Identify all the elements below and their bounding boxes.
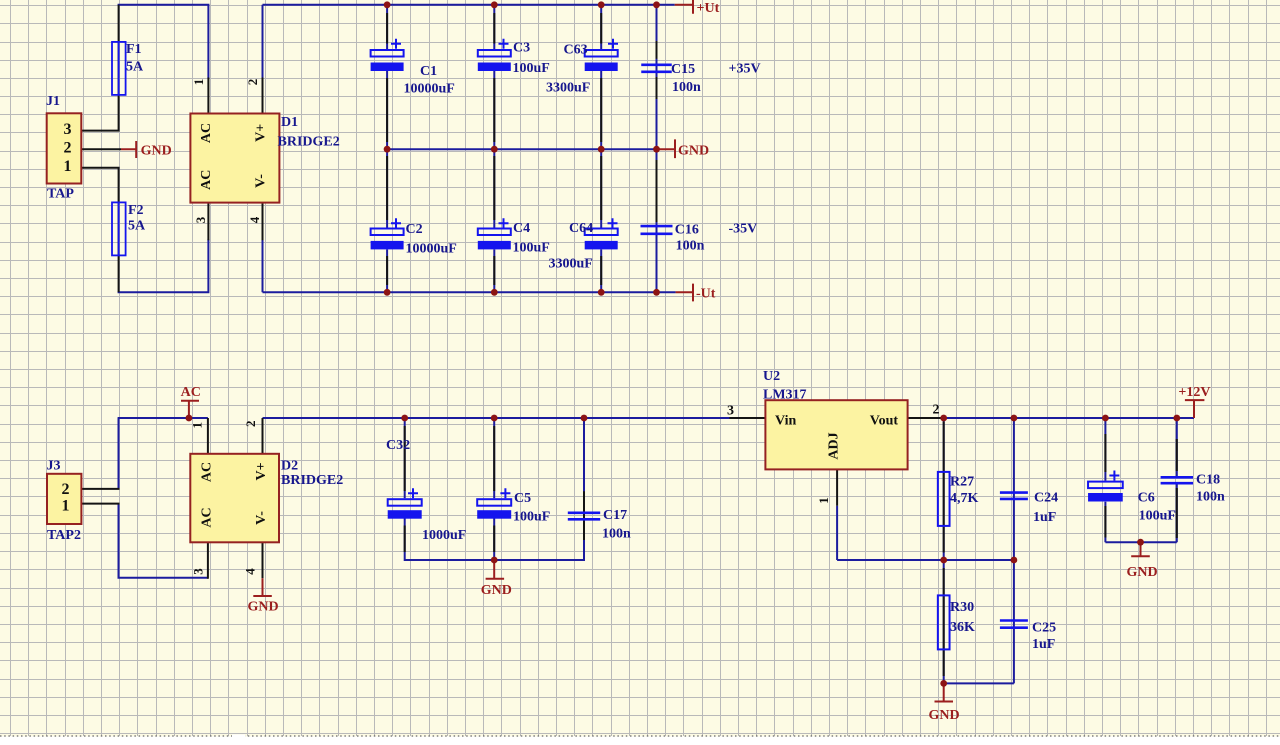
svg-text:GND: GND — [1127, 565, 1158, 580]
svg-text:GND: GND — [929, 708, 960, 723]
svg-text:5A: 5A — [126, 60, 144, 75]
svg-text:-35V: -35V — [729, 222, 758, 237]
svg-text:D1: D1 — [281, 115, 298, 130]
svg-text:-Ut: -Ut — [696, 287, 716, 302]
svg-text:F2: F2 — [128, 203, 144, 218]
svg-text:C24: C24 — [1034, 491, 1058, 506]
svg-text:2: 2 — [243, 421, 258, 428]
svg-text:C6: C6 — [1138, 491, 1155, 506]
svg-text:J3: J3 — [47, 459, 61, 474]
svg-text:TAP2: TAP2 — [47, 528, 81, 543]
svg-text:F1: F1 — [126, 42, 142, 57]
svg-text:C18: C18 — [1196, 473, 1220, 488]
svg-text:2: 2 — [62, 481, 70, 498]
svg-text:+12V: +12V — [1178, 385, 1210, 400]
svg-text:36K: 36K — [950, 620, 975, 635]
svg-text:2: 2 — [933, 403, 940, 418]
svg-text:C3: C3 — [513, 41, 530, 56]
svg-text:D2: D2 — [281, 459, 298, 474]
svg-text:100uF: 100uF — [513, 241, 550, 256]
svg-text:3300uF: 3300uF — [549, 257, 593, 272]
svg-text:J1: J1 — [46, 94, 60, 109]
svg-text:10000uF: 10000uF — [404, 82, 455, 97]
svg-text:10000uF: 10000uF — [406, 242, 457, 257]
svg-text:AC: AC — [199, 462, 214, 482]
svg-text:R30: R30 — [950, 600, 974, 615]
svg-text:5A: 5A — [128, 219, 146, 234]
svg-text:1: 1 — [816, 497, 831, 504]
svg-text:4,7K: 4,7K — [950, 491, 979, 506]
svg-text:100n: 100n — [672, 80, 701, 95]
svg-text:C1: C1 — [420, 64, 437, 79]
svg-text:4: 4 — [242, 568, 257, 575]
svg-text:GND: GND — [248, 600, 279, 615]
svg-text:C16: C16 — [675, 223, 699, 238]
svg-text:3: 3 — [64, 121, 72, 138]
svg-text:2: 2 — [245, 79, 260, 86]
svg-text:1uF: 1uF — [1033, 510, 1056, 525]
svg-text:3: 3 — [190, 568, 205, 575]
svg-text:Vout: Vout — [870, 414, 899, 429]
svg-text:100n: 100n — [602, 527, 631, 542]
svg-text:1uF: 1uF — [1032, 637, 1055, 652]
svg-text:1000uF: 1000uF — [422, 528, 466, 543]
svg-text:AC: AC — [181, 385, 201, 400]
svg-text:100uF: 100uF — [513, 510, 550, 525]
svg-text:C5: C5 — [514, 491, 531, 506]
svg-text:1: 1 — [191, 79, 206, 86]
svg-text:100n: 100n — [676, 239, 705, 254]
svg-text:BRIDGE2: BRIDGE2 — [281, 473, 343, 488]
svg-text:4: 4 — [247, 216, 262, 223]
svg-text:C25: C25 — [1032, 621, 1056, 636]
svg-text:100uF: 100uF — [513, 61, 550, 76]
svg-text:1: 1 — [64, 158, 72, 175]
svg-text:C4: C4 — [513, 221, 530, 236]
svg-text:V+: V+ — [254, 462, 269, 480]
svg-text:C17: C17 — [603, 508, 627, 523]
svg-text:TAP: TAP — [47, 187, 74, 202]
svg-text:1: 1 — [62, 498, 70, 515]
svg-text:GND: GND — [481, 583, 512, 598]
svg-text:+Ut: +Ut — [697, 1, 720, 16]
svg-text:GND: GND — [678, 144, 709, 159]
svg-text:GND: GND — [141, 144, 172, 159]
svg-text:3: 3 — [727, 404, 734, 419]
svg-text:AC: AC — [199, 170, 214, 190]
svg-text:C32: C32 — [386, 438, 410, 453]
svg-text:2: 2 — [64, 140, 72, 157]
svg-text:AC: AC — [199, 123, 214, 143]
svg-text:C64: C64 — [569, 221, 593, 236]
svg-text:C2: C2 — [406, 222, 423, 237]
svg-text:1: 1 — [189, 422, 204, 429]
svg-text:100uF: 100uF — [1139, 509, 1176, 524]
svg-text:R27: R27 — [950, 475, 974, 490]
svg-text:V-: V- — [254, 174, 269, 188]
svg-text:AC: AC — [199, 507, 214, 527]
svg-text:3300uF: 3300uF — [546, 81, 590, 96]
svg-text:C63: C63 — [564, 43, 588, 58]
svg-text:C15: C15 — [671, 62, 695, 77]
svg-text:Vin: Vin — [775, 414, 796, 429]
svg-text:V-: V- — [254, 511, 269, 525]
svg-text:BRIDGE2: BRIDGE2 — [278, 135, 340, 150]
svg-text:ADJ: ADJ — [827, 432, 842, 459]
svg-text:100n: 100n — [1196, 490, 1225, 505]
svg-text:U2: U2 — [763, 369, 780, 384]
svg-text:V+: V+ — [254, 124, 269, 142]
svg-text:LM317: LM317 — [763, 388, 807, 403]
svg-text:+35V: +35V — [729, 62, 761, 77]
svg-text:3: 3 — [193, 216, 208, 223]
